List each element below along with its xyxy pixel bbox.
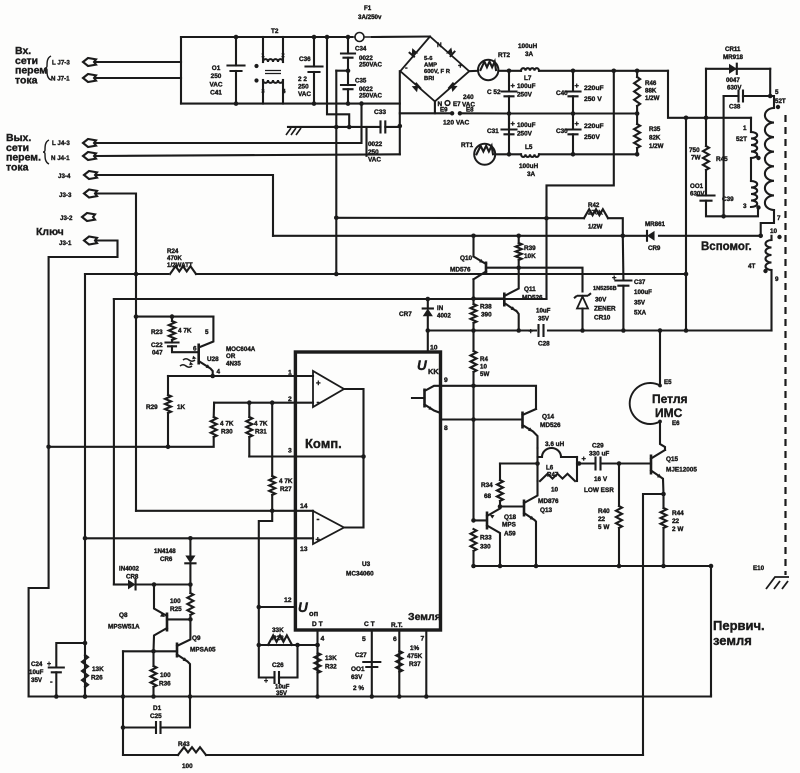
resistor R29	[165, 395, 171, 413]
junction dots mid rail	[571, 111, 640, 116]
wire J7-3 to filter box	[96, 61, 181, 63]
junction dots CR9 row	[471, 234, 625, 239]
svg-text:+: +	[316, 535, 321, 544]
wire J4-3 row	[96, 104, 362, 143]
junction dots rail C	[571, 152, 640, 157]
svg-text:C29: C29	[592, 443, 604, 450]
svg-text:1: 1	[288, 370, 292, 377]
svg-text:MD576: MD576	[450, 267, 471, 274]
svg-text:L6: L6	[546, 465, 554, 472]
resistor R36	[151, 666, 157, 687]
svg-text:+: +	[511, 119, 516, 128]
svg-text:C38: C38	[729, 104, 741, 111]
svg-text:RT1: RT1	[461, 142, 474, 149]
svg-text:J3-3: J3-3	[59, 192, 72, 199]
junction Q18 base R33	[471, 518, 476, 523]
wire J3-3 to pin14 drop	[96, 194, 136, 511]
wire Q10 emitter vertical	[472, 236, 474, 257]
svg-text:Ключ: Ключ	[36, 226, 64, 238]
wire pin1 lead	[750, 118, 752, 132]
wire C26 loop	[259, 645, 273, 678]
svg-text:L5: L5	[525, 144, 533, 151]
wire Q15 emitter	[662, 479, 665, 494]
svg-text:250 V: 250 V	[584, 96, 602, 103]
bridge diode c	[412, 86, 419, 92]
wire L6 right node	[576, 457, 578, 481]
wire C36 bottom lead	[313, 72, 315, 104]
wire C38 row	[724, 95, 739, 97]
svg-text:CR11: CR11	[725, 46, 741, 53]
wire R27 feed	[271, 403, 273, 476]
junction P1 on R42 row	[544, 216, 549, 221]
svg-text:L7: L7	[524, 75, 532, 82]
resistor R30	[211, 417, 217, 437]
svg-text:J3-4: J3-4	[58, 173, 71, 180]
svg-text:1N4148: 1N4148	[154, 548, 176, 555]
wire main 299 row	[114, 298, 547, 300]
IC U3 MC34060 box	[295, 352, 440, 630]
wire C41 bottom lead	[235, 71, 237, 104]
svg-text:+: +	[582, 454, 587, 463]
wire rail C right	[539, 153, 637, 155]
capacitor C30	[566, 130, 581, 135]
op-amp comparator 1	[313, 371, 344, 407]
svg-text:R30: R30	[221, 429, 233, 436]
zener diode CR10	[574, 293, 591, 298]
svg-text:Q14: Q14	[542, 414, 555, 421]
resistor R33	[471, 529, 477, 551]
wire ground rail corner up	[710, 695, 712, 697]
wire C38 row right	[743, 95, 770, 97]
wire C52 bottom lead	[508, 96, 510, 154]
svg-text:D T: D T	[312, 621, 323, 628]
svg-text:4: 4	[217, 369, 221, 376]
svg-text:U: U	[417, 358, 428, 373]
resistor R35	[634, 124, 640, 148]
junction dots C36	[312, 35, 317, 106]
wire R31 bottom lead	[248, 437, 250, 457]
svg-text:C36: C36	[299, 56, 311, 63]
svg-text:CR8: CR8	[126, 574, 139, 581]
svg-text:5: 5	[775, 89, 779, 96]
svg-text:100: 100	[182, 763, 193, 770]
svg-text:KK: KK	[428, 367, 439, 376]
wire bridge bottom stub left	[400, 112, 435, 114]
svg-text:CR10: CR10	[594, 315, 611, 322]
svg-text:MPSW51A: MPSW51A	[108, 624, 140, 631]
wire C24 top link	[56, 643, 85, 668]
svg-text:Петля: Петля	[652, 392, 687, 406]
svg-text:Q13: Q13	[540, 507, 553, 514]
wire R35 bottom lead	[636, 148, 638, 154]
svg-text:R28: R28	[272, 635, 284, 642]
diode CR9 MR861	[647, 231, 655, 241]
wire C33 row right	[385, 126, 400, 128]
op-amp comparator 2	[313, 511, 344, 544]
transformer T1 primary winding 2	[751, 181, 757, 207]
junction R25 Q9 collector	[188, 617, 193, 622]
junction dots emitter rail	[471, 564, 713, 569]
junction dots x336	[334, 125, 352, 220]
wire zener row	[519, 268, 583, 292]
wire current loop feed	[659, 331, 661, 385]
wire 299 drop to CR8	[114, 299, 127, 585]
junction pin8 drop	[471, 417, 476, 422]
svg-text:R29: R29	[146, 404, 158, 411]
junction dots C41	[234, 35, 239, 106]
junction CR6 top	[188, 536, 193, 541]
svg-text:J3-1: J3-1	[59, 240, 72, 247]
capacitor C29	[596, 458, 601, 470]
junction dots aux row	[471, 328, 626, 333]
wire J3-4 row	[96, 175, 273, 236]
svg-text:MC34060: MC34060	[346, 571, 374, 578]
junction pin7 on aux row	[758, 234, 763, 239]
svg-text:35V: 35V	[31, 677, 43, 684]
resistor R32	[315, 653, 321, 673]
svg-text:3: 3	[288, 448, 292, 455]
wire R30 drop	[213, 403, 216, 417]
svg-text:R43: R43	[178, 741, 190, 748]
svg-text:E7: E7	[453, 101, 461, 108]
svg-text:OO1: OO1	[351, 666, 365, 673]
svg-text:J3-2: J3-2	[60, 215, 73, 222]
polarity dot secondary top	[776, 105, 780, 109]
svg-text:C39: C39	[722, 196, 734, 203]
wire x123 vertical	[122, 651, 124, 755]
wire pin5 drop	[371, 630, 373, 697]
wire C26 loop right	[279, 645, 298, 678]
wire J4-1 row to RT1	[96, 154, 400, 156]
junction C24 rail	[54, 694, 59, 699]
wire R34 top	[499, 464, 501, 481]
svg-text:10: 10	[770, 228, 778, 235]
wire CR10 bottom lead	[581, 309, 583, 331]
diode CR8	[128, 580, 136, 590]
svg-text:3A: 3A	[527, 171, 536, 178]
wire fuse to bridge	[372, 35, 430, 38]
capacitor C27	[363, 662, 380, 667]
wire R29 bottom lead	[167, 413, 169, 447]
svg-text:120 VAC: 120 VAC	[443, 120, 470, 127]
svg-text:047: 047	[152, 350, 163, 357]
wire pin1 row	[168, 375, 313, 377]
capacitor C37	[615, 281, 631, 286]
svg-text:0047: 0047	[726, 77, 740, 84]
svg-text:2: 2	[281, 53, 284, 59]
svg-text:100uF: 100uF	[517, 83, 536, 90]
wire E8 to mid rail	[460, 112, 509, 114]
wire R44 feed	[662, 494, 664, 508]
wire C22 to U28 base	[172, 346, 199, 352]
inductor L7	[521, 68, 539, 71]
wire op1 output	[344, 389, 364, 528]
wire C31 top lead	[508, 114, 510, 129]
svg-text:-: -	[317, 397, 320, 407]
thermistor RT1	[474, 144, 495, 165]
svg-text:250V: 250V	[517, 131, 533, 138]
junction CR7 bottom	[426, 328, 431, 333]
svg-text:T2: T2	[271, 28, 279, 35]
diode CR11	[729, 64, 737, 74]
transformer core dashed line	[784, 115, 786, 575]
svg-text:4 7K: 4 7K	[220, 421, 234, 428]
svg-text:4002: 4002	[437, 313, 451, 320]
wire C34-C35 link	[347, 58, 349, 85]
junction dots rail A jog	[684, 116, 709, 121]
svg-text:CR9: CR9	[648, 245, 661, 252]
wire R28 row	[259, 644, 318, 646]
svg-text:MR861: MR861	[645, 221, 666, 228]
wire pin14 row	[136, 510, 313, 512]
wire R44 bottom lead	[662, 528, 664, 566]
resistor R24	[170, 266, 196, 274]
svg-text:7: 7	[421, 636, 425, 643]
svg-text:R38: R38	[480, 304, 492, 311]
wire R42 row left	[336, 217, 584, 219]
wire R29 top lead	[167, 376, 169, 395]
svg-text:30V: 30V	[595, 297, 607, 304]
wire T2 winding1 left lead	[262, 37, 264, 62]
svg-text:C24: C24	[31, 661, 43, 668]
svg-text:Вспомог.: Вспомог.	[701, 241, 752, 253]
wire top AC line	[181, 36, 352, 38]
wire R23 top lead	[171, 317, 173, 321]
svg-text:MD876: MD876	[538, 498, 559, 505]
wire bottom AC line	[181, 103, 400, 105]
diode CR7	[423, 309, 433, 317]
wire bridge plus to RT2	[469, 70, 478, 72]
svg-text:C27: C27	[355, 652, 367, 659]
svg-text:4T: 4T	[748, 263, 756, 270]
resistor R31	[246, 417, 252, 437]
svg-text:C30: C30	[556, 128, 568, 135]
wire R25 bottom lead	[189, 615, 191, 619]
svg-text:C40: C40	[556, 90, 568, 97]
capacitor C22	[166, 343, 179, 347]
wire CR11 row	[706, 68, 770, 70]
junction op outputs pin3	[361, 454, 366, 459]
svg-text:10uF: 10uF	[29, 669, 44, 676]
junction loop feed	[658, 328, 663, 333]
junction C33 right	[398, 124, 403, 129]
connector J4-1	[83, 152, 96, 160]
svg-text:R34: R34	[481, 482, 493, 489]
svg-text:C 52: C 52	[487, 89, 501, 96]
optocoupler light arrows	[180, 359, 195, 368]
svg-text:4 7K: 4 7K	[178, 328, 192, 335]
wire R46 leads	[636, 71, 638, 77]
wire C37 top lead	[622, 236, 625, 279]
transistor Q8	[166, 613, 169, 632]
svg-text:-: -	[405, 63, 408, 72]
svg-text:250V: 250V	[517, 92, 533, 99]
junction dots left bus x85	[83, 536, 88, 699]
wire 446 row	[49, 446, 168, 448]
svg-text:R37: R37	[409, 661, 421, 668]
junction Q8 collector node	[151, 649, 156, 654]
bridge diode d	[451, 86, 458, 92]
svg-text:E5: E5	[664, 379, 672, 386]
svg-text:10uF: 10uF	[536, 308, 551, 315]
wire pin14 step to pin12	[259, 511, 272, 645]
wire R24 row right	[196, 273, 686, 275]
resistor R25	[187, 593, 193, 615]
svg-text:220uF: 220uF	[584, 85, 604, 92]
svg-text:7W: 7W	[691, 155, 702, 162]
capacitor C34	[341, 54, 355, 58]
svg-text:ИМС: ИМС	[655, 406, 683, 420]
wire C29 to Q15 base	[601, 462, 652, 464]
svg-text:Q9: Q9	[192, 635, 201, 642]
wire R27 bottom lead	[271, 495, 273, 511]
wire CR11 right vertical	[769, 69, 771, 96]
wire V1 vertical	[685, 118, 687, 331]
wire C30 top lead	[572, 114, 574, 129]
svg-text:+: +	[47, 661, 51, 668]
junction dots rail A	[507, 69, 640, 74]
junction C31 rail C	[507, 152, 512, 157]
svg-text:10: 10	[551, 487, 559, 494]
transistor Q15	[650, 455, 653, 475]
junction Q15 emitter node	[661, 492, 666, 497]
wire pin13 row	[85, 537, 313, 539]
capacitor C40	[566, 92, 581, 97]
svg-text:100uH: 100uH	[518, 43, 538, 50]
svg-text:5: 5	[205, 329, 209, 336]
wire CR6 drop	[189, 538, 191, 555]
svg-text:RT2: RT2	[498, 52, 511, 59]
wire left bus x85	[84, 274, 86, 697]
svg-text:Q10: Q10	[460, 255, 473, 262]
svg-text:390: 390	[481, 312, 492, 319]
bridge rectifier BR1 diamond	[400, 37, 469, 102]
svg-text:100: 100	[160, 672, 171, 679]
junction R4 pin9	[471, 384, 476, 389]
resistor R47	[540, 474, 575, 481]
svg-text:+: +	[575, 119, 580, 128]
svg-text:63V: 63V	[351, 674, 363, 681]
svg-text:Земля: Земля	[408, 611, 441, 623]
wire top line to C33 row jog	[327, 37, 349, 127]
wire mid rail B	[509, 112, 637, 114]
svg-text:+: +	[458, 61, 463, 70]
thermistor RT2	[478, 60, 498, 80]
svg-text:3A: 3A	[525, 51, 534, 58]
svg-text:1N5256B: 1N5256B	[593, 286, 617, 292]
wire pin12 row	[259, 606, 296, 608]
wire pin3 row	[249, 455, 363, 457]
junction top line jog	[325, 35, 330, 40]
svg-text:240: 240	[463, 94, 474, 101]
capacitor C38	[739, 91, 744, 102]
svg-text:MJE12005: MJE12005	[666, 467, 697, 474]
connector J3-3	[84, 190, 97, 198]
svg-text:D1: D1	[153, 705, 162, 712]
transformer T1 secondary winding	[765, 108, 774, 210]
svg-text:C22: C22	[151, 342, 163, 349]
thermistor RT2 zigzag	[481, 62, 497, 70]
wire CR7 bottom lead	[427, 316, 429, 330]
svg-text:8: 8	[444, 425, 448, 432]
wire aux bottom lead to aux row	[770, 270, 772, 331]
svg-text:1K: 1K	[177, 404, 186, 411]
svg-text:R45: R45	[716, 156, 728, 163]
wire C33-R42 vertical x336	[335, 71, 337, 274]
svg-text:R25: R25	[170, 606, 182, 613]
svg-text:Q15: Q15	[666, 456, 679, 463]
wire Q11 emitter vertical	[517, 311, 519, 331]
capacitor C31	[502, 130, 517, 135]
wire base return jog	[643, 494, 664, 755]
resistor R34	[497, 480, 503, 501]
junction U28 emitter pin4	[210, 374, 215, 379]
svg-text:Первич.: Первич.	[713, 618, 765, 633]
thermistor RT1 zigzag	[477, 146, 494, 154]
transistor Q9	[176, 643, 179, 658]
wire T2 winding2 right lead	[282, 80, 284, 104]
junction pin12	[257, 605, 262, 610]
svg-text:ZENER: ZENER	[594, 306, 616, 313]
wire pin2 row	[214, 402, 313, 404]
svg-text:52T: 52T	[736, 136, 747, 143]
wire R46 R35 junction	[636, 106, 638, 124]
resistor R46	[634, 77, 640, 106]
svg-text:52T: 52T	[775, 98, 786, 105]
resistor R38	[471, 304, 477, 323]
svg-text:MD526: MD526	[540, 422, 561, 429]
wire R45 to C39	[705, 170, 707, 196]
svg-text:+: +	[316, 379, 321, 388]
svg-text:Q8: Q8	[119, 612, 128, 619]
svg-text:C31: C31	[487, 128, 499, 135]
wire R36 bottom lead	[152, 687, 154, 697]
chassis ground symbol	[286, 127, 301, 135]
wire CR9 row right	[659, 235, 761, 237]
resistor R4	[471, 351, 477, 372]
wire J3-1 loop to left bus	[29, 241, 118, 697]
svg-text:U28: U28	[207, 356, 219, 363]
svg-text:16 V: 16 V	[594, 476, 608, 483]
junction Q18 collector R34	[498, 504, 503, 509]
wire R4 top lead	[472, 331, 474, 352]
junction dots x123	[121, 694, 126, 730]
svg-text:6: 6	[393, 636, 397, 643]
svg-text:земля: земля	[713, 633, 752, 648]
wire R26 bottom lead	[84, 687, 86, 697]
terminal E7	[445, 101, 450, 106]
wire C34 top lead	[347, 37, 349, 54]
polarity dot aux bottom	[763, 269, 767, 273]
transformer T2 winding 3-4	[263, 80, 283, 83]
svg-text:5: 5	[362, 636, 366, 643]
capacitor C28	[539, 325, 544, 336]
wire aux top lead	[770, 236, 772, 240]
wire C35 bottom lead	[347, 89, 349, 103]
svg-text:Q11: Q11	[524, 286, 536, 293]
svg-text:1: 1	[743, 125, 747, 132]
junction opto top	[134, 314, 175, 319]
wire C38 left drop	[723, 96, 725, 216]
wire rail A jog down	[668, 71, 751, 118]
junction C52 mid rail	[507, 111, 512, 116]
diode CR6	[185, 556, 195, 564]
wire loop to Q15 collector	[660, 422, 665, 451]
svg-text:R47: R47	[547, 472, 559, 479]
resistor R39	[516, 243, 522, 260]
svg-text:475K: 475K	[407, 653, 423, 660]
wire C25 right	[161, 697, 191, 728]
